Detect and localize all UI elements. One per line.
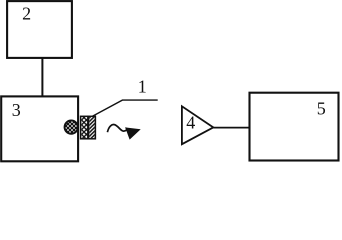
svg-text:2: 2 xyxy=(22,4,31,24)
svg-text:5: 5 xyxy=(317,99,326,119)
amplifier triangle 4 xyxy=(182,106,213,144)
leader line to label 1 xyxy=(92,100,158,116)
wire box2-box3 xyxy=(41,57,43,97)
wavy radiation arrow xyxy=(107,125,139,139)
box 2 xyxy=(7,1,72,58)
box 5 xyxy=(250,93,339,161)
transducer circle (hatched) xyxy=(65,121,78,134)
transducer element 1: hatched rectangle xyxy=(81,116,96,139)
svg-text:1: 1 xyxy=(138,77,147,97)
svg-text:3: 3 xyxy=(12,100,21,120)
svg-text:4: 4 xyxy=(186,113,195,133)
wire triangle-box5 xyxy=(213,127,250,129)
box 3 xyxy=(1,96,78,161)
